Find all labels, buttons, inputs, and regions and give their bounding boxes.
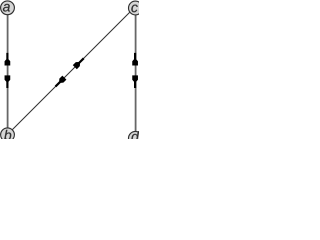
node c bbox=[129, 1, 143, 15]
node d bbox=[129, 131, 143, 145]
wire: edge c-d (right vertical) bbox=[135, 8, 137, 138]
label c bbox=[131, 5, 137, 13]
arrow toward b on edge b-c bbox=[53, 76, 66, 89]
label a bbox=[3, 4, 10, 12]
node a bbox=[1, 1, 15, 15]
arrow toward c on edge b-c bbox=[73, 56, 86, 69]
arrow toward b on edge a-b bbox=[5, 75, 11, 88]
arrow toward c on edge c-d bbox=[132, 53, 138, 66]
arrow toward d on edge c-d bbox=[132, 75, 138, 88]
wire: edge b-c (diagonal) bbox=[7, 8, 135, 136]
arrow toward a on edge a-b bbox=[5, 53, 11, 66]
label b bbox=[4, 130, 11, 140]
label d bbox=[131, 131, 139, 141]
wire: edge a-b (left vertical) bbox=[7, 8, 9, 135]
node b bbox=[1, 128, 15, 142]
